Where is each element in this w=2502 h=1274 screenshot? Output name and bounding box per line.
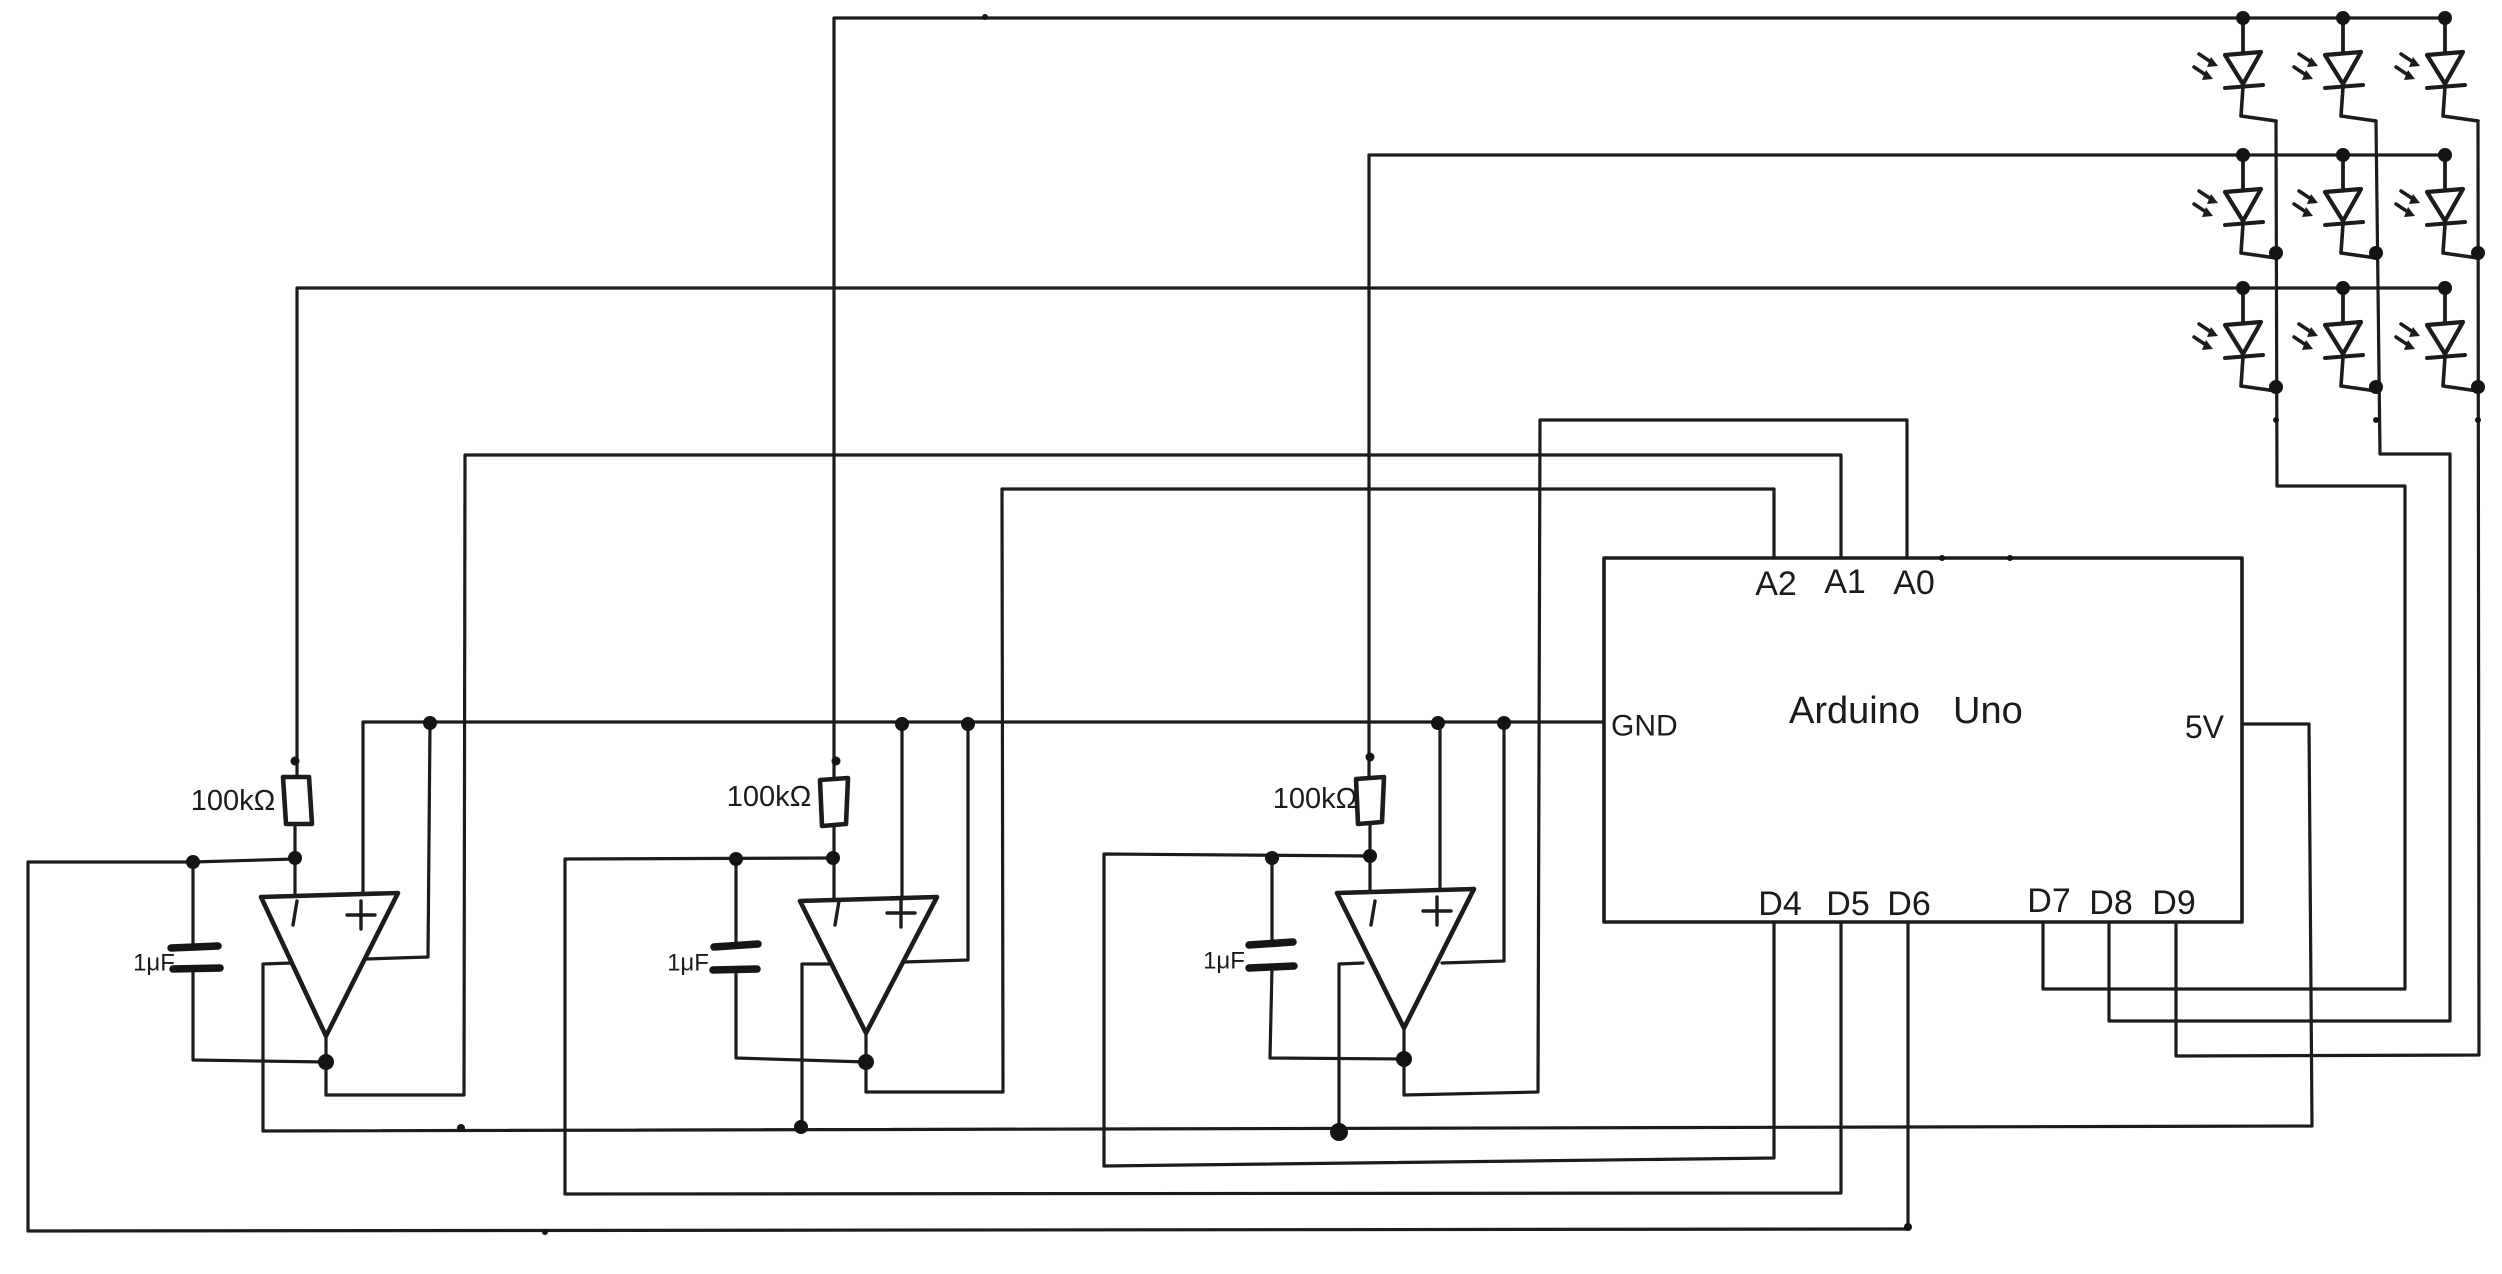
svg-text:1μF: 1μF — [667, 950, 709, 977]
svg-text:Arduino: Arduino — [1789, 690, 1920, 732]
svg-text:D6: D6 — [1887, 885, 1930, 923]
svg-text:5V: 5V — [2185, 709, 2225, 745]
svg-text:100kΩ: 100kΩ — [727, 781, 812, 813]
svg-text:D9: D9 — [2152, 884, 2195, 922]
svg-text:100kΩ: 100kΩ — [1273, 783, 1358, 815]
svg-text:1μF: 1μF — [133, 950, 175, 977]
svg-text:Uno: Uno — [1953, 690, 2023, 732]
svg-text:A0: A0 — [1893, 564, 1935, 602]
svg-text:1μF: 1μF — [1203, 948, 1245, 975]
svg-text:D4: D4 — [1758, 885, 1801, 923]
svg-text:D8: D8 — [2089, 884, 2132, 922]
svg-text:GND: GND — [1611, 710, 1678, 743]
svg-text:D7: D7 — [2027, 882, 2070, 920]
svg-text:A2: A2 — [1755, 565, 1797, 603]
svg-text:A1: A1 — [1824, 563, 1866, 601]
svg-text:D5: D5 — [1826, 885, 1869, 923]
svg-text:100kΩ: 100kΩ — [191, 785, 276, 817]
